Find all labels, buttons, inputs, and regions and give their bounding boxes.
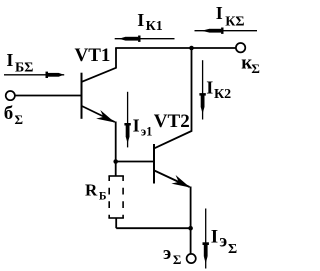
svg-text:КΣ: КΣ bbox=[225, 14, 244, 29]
svg-text:I: I bbox=[211, 227, 218, 248]
svg-text:б: б bbox=[4, 103, 14, 124]
svg-text:Σ: Σ bbox=[251, 61, 260, 76]
svg-text:Σ: Σ bbox=[228, 242, 237, 257]
svg-text:Б: Б bbox=[99, 191, 107, 203]
svg-text:э: э bbox=[163, 243, 171, 264]
svg-text:I: I bbox=[137, 10, 144, 30]
svg-text:э: э bbox=[219, 231, 227, 251]
svg-text:К1: К1 bbox=[146, 19, 163, 34]
svg-text:I: I bbox=[133, 116, 140, 136]
svg-text:VT2: VT2 bbox=[154, 111, 190, 132]
svg-text:R: R bbox=[85, 180, 98, 199]
svg-text:Σ: Σ bbox=[15, 112, 24, 127]
svg-text:I: I bbox=[206, 77, 213, 97]
svg-text:БΣ: БΣ bbox=[15, 60, 33, 75]
svg-text:э1: э1 bbox=[141, 125, 153, 139]
svg-text:К2: К2 bbox=[214, 87, 231, 102]
svg-text:I: I bbox=[216, 3, 223, 23]
svg-text:VT1: VT1 bbox=[75, 45, 111, 66]
svg-text:Σ: Σ bbox=[173, 252, 182, 267]
svg-text:I: I bbox=[6, 50, 13, 70]
